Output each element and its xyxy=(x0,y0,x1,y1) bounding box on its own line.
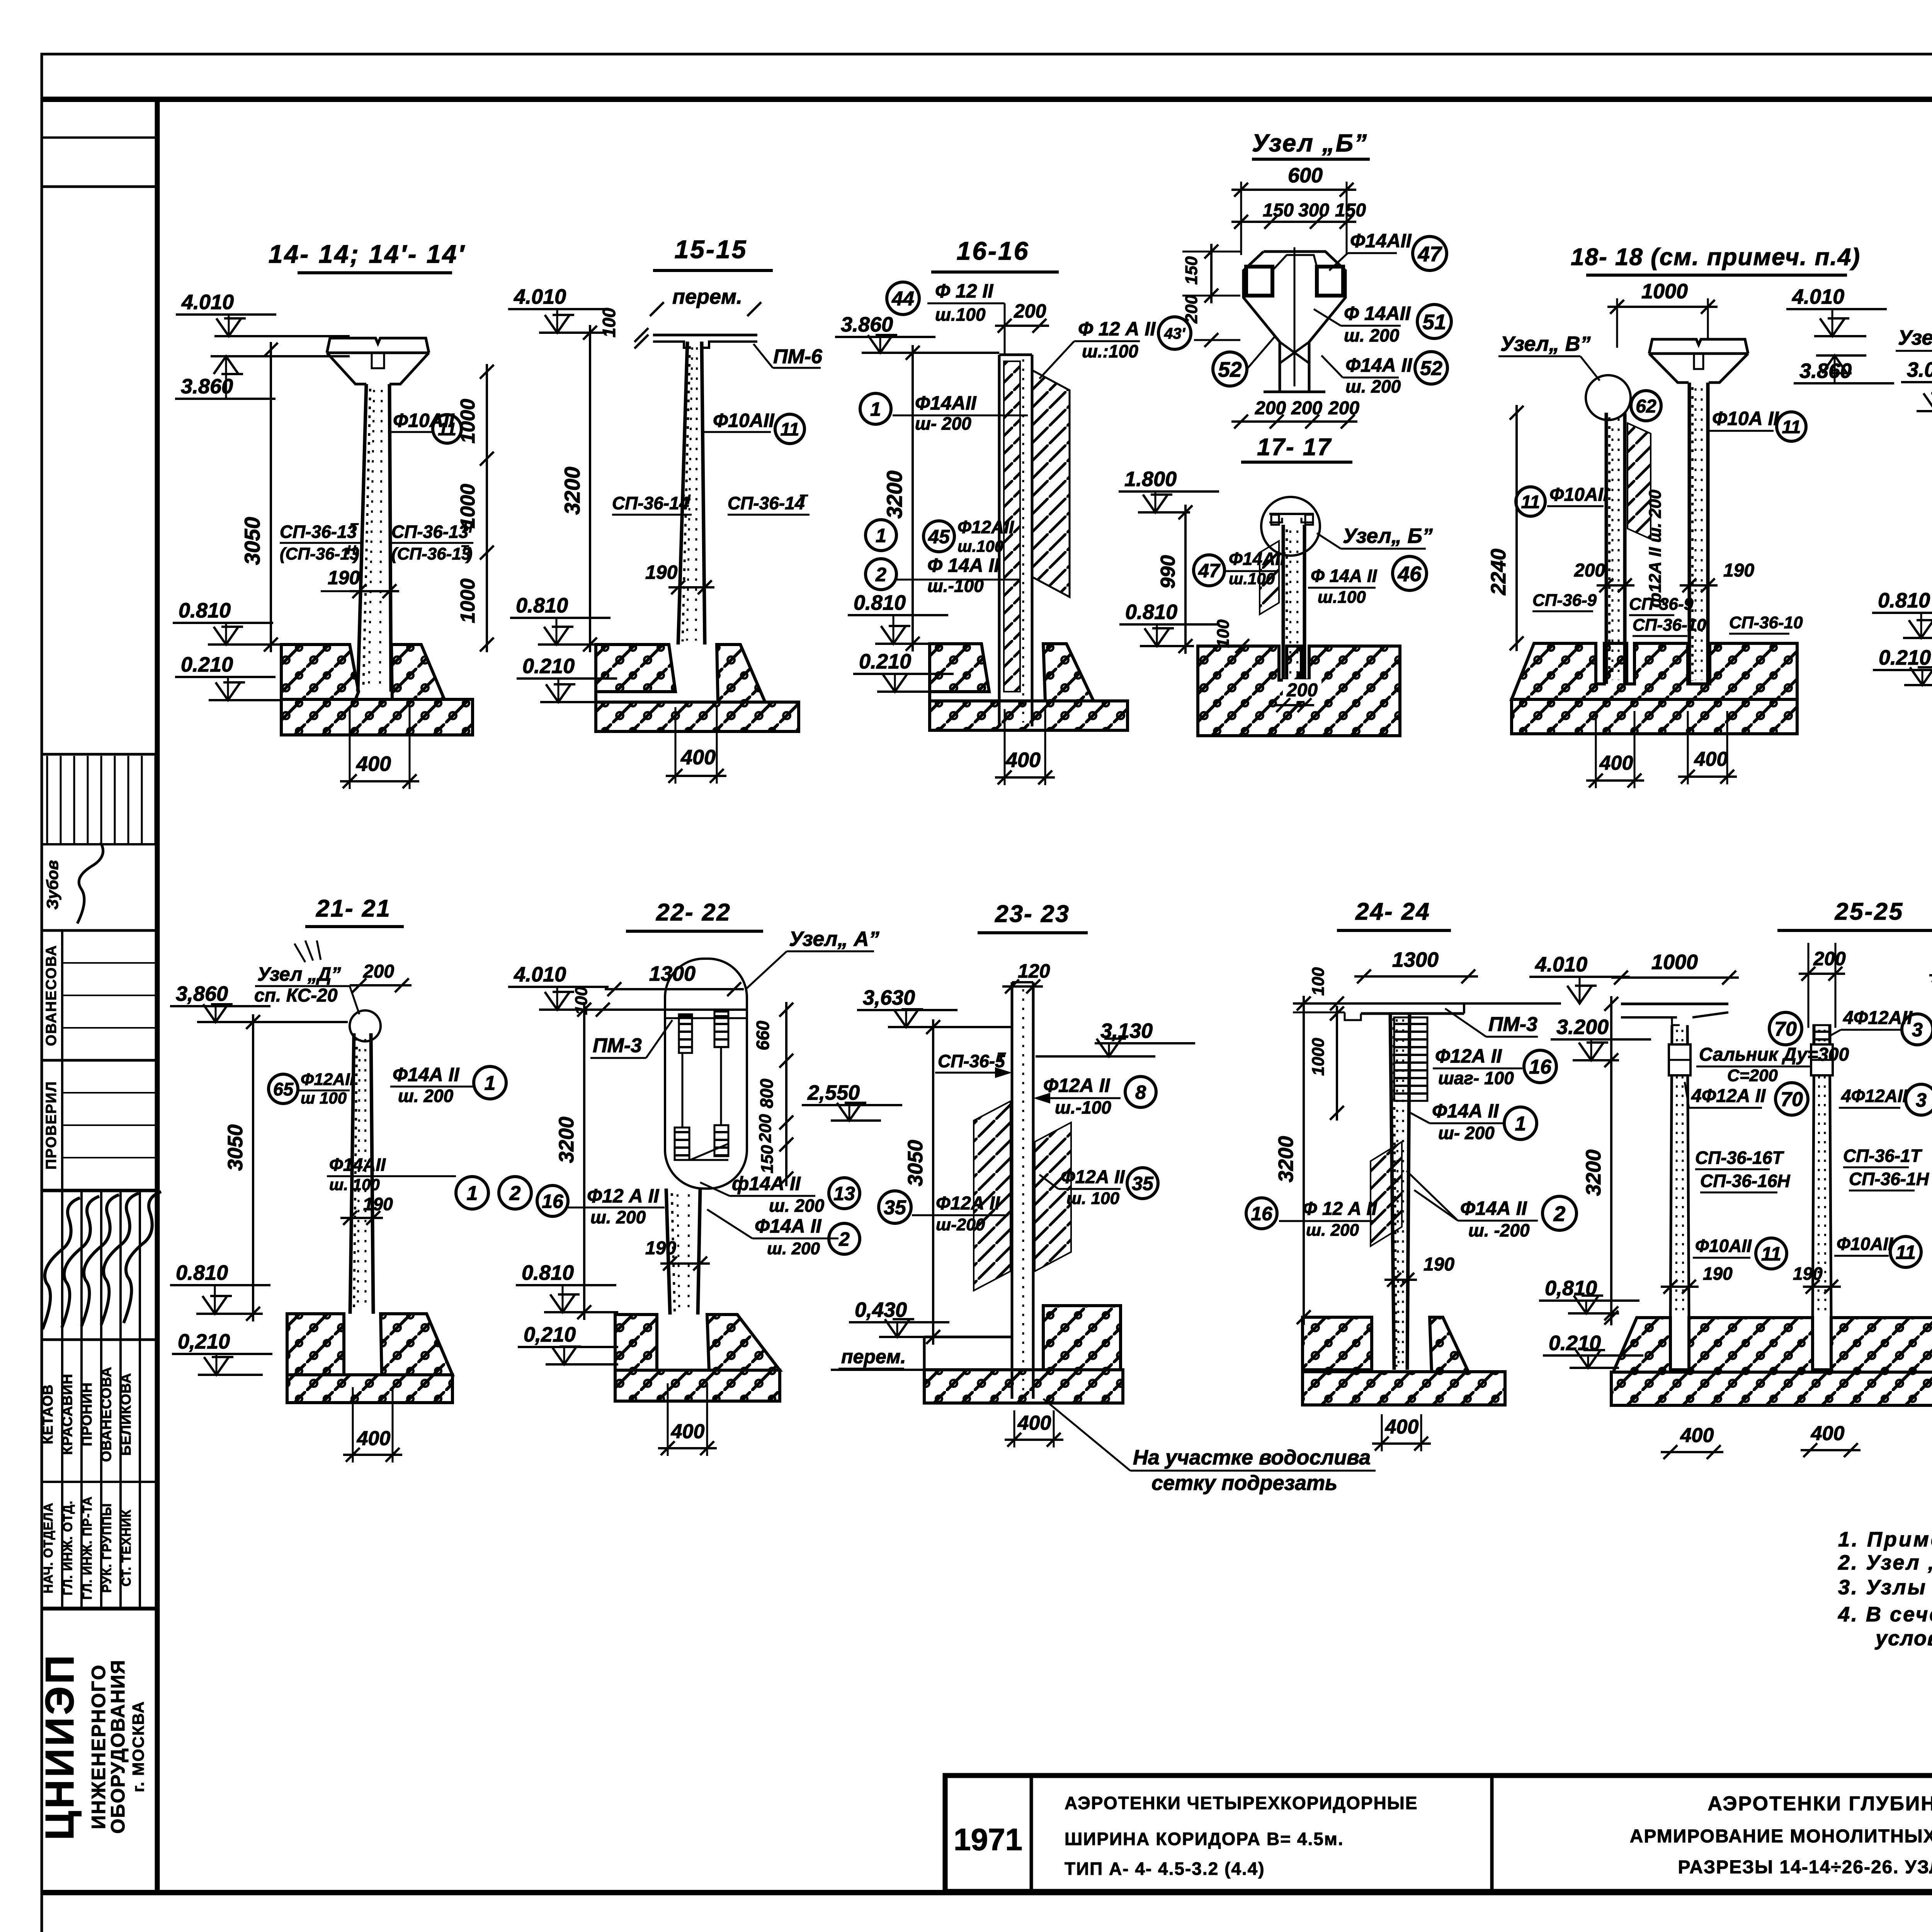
svg-text:11: 11 xyxy=(1782,417,1801,437)
mesh hatch left (23-23) xyxy=(974,1101,1010,1291)
svg-text:ш. 200: ш. 200 xyxy=(1345,376,1401,396)
svg-text:47: 47 xyxy=(1417,242,1442,266)
svg-text:СП-36-16Н: СП-36-16Н xyxy=(1700,1171,1790,1191)
dimension 200 (21-21) xyxy=(350,961,412,992)
node Б label (17-17) xyxy=(1317,524,1433,549)
rebar label Ф14АII (node Б 47) xyxy=(1329,230,1412,270)
section 15-15 title xyxy=(653,235,773,270)
svg-text:Ф14АII: Ф14АII xyxy=(1229,549,1286,569)
level mark 3,860 (21-21) xyxy=(170,982,348,1022)
section 25-25 title xyxy=(1777,898,1932,930)
note на участке водослива (23-23) xyxy=(1043,1399,1376,1495)
foundation 14-14 right block xyxy=(391,645,444,699)
dimension 400 (14-14) xyxy=(340,707,419,789)
foundation 16-16 base xyxy=(930,692,1128,730)
svg-text:Ф14А II: Ф14А II xyxy=(1345,354,1413,376)
level mark 3.860 (18-18) xyxy=(1794,355,1894,383)
node В label (19-19) xyxy=(1896,326,1932,383)
dimension 3200 (16-16) xyxy=(882,345,920,651)
svg-text:150: 150 xyxy=(758,1145,777,1173)
panel labels СП-36-14 (15-15) xyxy=(612,492,810,515)
level mark 2,550 (23-23) xyxy=(802,1081,902,1121)
mesh hatch right (23-23) xyxy=(1035,1122,1071,1271)
svg-text:Ф12АII: Ф12АII xyxy=(957,517,1014,537)
svg-text:400: 400 xyxy=(1005,748,1041,772)
svg-text:2,550: 2,550 xyxy=(807,1081,860,1104)
rebar label Ф14АII right (22-22) xyxy=(700,1173,825,1216)
svg-text:ЦНИИЭП: ЦНИИЭП xyxy=(37,1653,82,1840)
rebar Ф10АII c1 (25-25) xyxy=(1693,1236,1752,1258)
svg-text:ш. -200: ш. -200 xyxy=(1468,1220,1530,1240)
svg-text:2: 2 xyxy=(838,1228,850,1250)
svg-text:0.810: 0.810 xyxy=(522,1261,574,1284)
note line 5 xyxy=(1874,1627,1932,1650)
rebar 4Ф12АII c1 row2 (25-25) xyxy=(1685,1082,1766,1108)
svg-text:перем.: перем. xyxy=(841,1346,906,1367)
foundation 18-18 upper xyxy=(1512,643,1797,699)
svg-text:3200: 3200 xyxy=(560,467,584,515)
svg-text:ПМ-3: ПМ-3 xyxy=(1488,1013,1537,1036)
panel labels СП-36-1 c2 (25-25) xyxy=(1843,1146,1929,1190)
svg-text:25-25: 25-25 xyxy=(1835,898,1904,925)
dimension 190 (15-15) xyxy=(645,561,714,594)
svg-text:ПРОНИН: ПРОНИН xyxy=(79,1382,95,1446)
svg-text:ОБОРУДОВАНИЯ: ОБОРУДОВАНИЯ xyxy=(107,1659,129,1833)
svg-text:АЭРОТЕНКИ ГЛУБИНОЙ 3.2 м.: АЭРОТЕНКИ ГЛУБИНОЙ 3.2 м. xyxy=(1708,1792,1932,1815)
svg-text:Ф 12 II: Ф 12 II xyxy=(935,280,993,302)
callout 35 (23-23) xyxy=(1127,1168,1158,1199)
mesh hatch right (16-16) xyxy=(1032,370,1070,597)
foundation 22-22 left block xyxy=(615,1315,657,1370)
foundation 24-24 left block xyxy=(1303,1317,1372,1370)
svg-text:Узел„ В”: Узел„ В” xyxy=(1500,332,1591,355)
svg-text:2: 2 xyxy=(509,1182,521,1205)
svg-text:990: 990 xyxy=(1157,555,1179,589)
svg-text:200: 200 xyxy=(1574,560,1605,581)
column 14-14 xyxy=(358,384,391,692)
svg-text:Ф12АII: Ф12АII xyxy=(301,1070,355,1089)
svg-text:1. Примечания см. лист КС: 1. Примечания см. лист КС- 20. xyxy=(1838,1528,1932,1551)
dimension 100 (22-22) xyxy=(572,986,610,1017)
dimension 100 (17-17) xyxy=(1213,619,1271,653)
svg-text:СП-36-9: СП-36-9 xyxy=(1532,591,1597,610)
svg-text:400: 400 xyxy=(1694,748,1728,770)
stamp signatures xyxy=(43,1192,161,1329)
cap (mushroom head) 14-14 xyxy=(327,338,429,384)
rebar label Ф12АII ш.200 (24-24 16) xyxy=(1246,1198,1378,1240)
svg-text:Ф 14АII: Ф 14АII xyxy=(1344,303,1411,324)
svg-text:ш.100: ш.100 xyxy=(957,537,1003,555)
level mark 0,810 (24-24) xyxy=(1539,1277,1639,1313)
title block year 1971 xyxy=(954,1822,1022,1857)
svg-text:0.210: 0.210 xyxy=(859,650,911,673)
dims 400 (25-25) xyxy=(1661,1422,1932,1459)
stamp label ПРОВЕРИЛ xyxy=(43,1081,60,1170)
svg-text:ш. 100: ш. 100 xyxy=(1066,1189,1120,1208)
callout 3 (25-25) xyxy=(1902,1014,1932,1045)
label ПМ-3 (22-22) xyxy=(590,1020,672,1058)
rebar label Ф10АII left (18-18) xyxy=(1547,485,1609,506)
svg-text:На участке водослива: На участке водослива xyxy=(1133,1446,1371,1469)
svg-text:1: 1 xyxy=(1515,1113,1526,1135)
svg-text:сетку подрезать: сетку подрезать xyxy=(1151,1471,1337,1495)
dimension 400 (18-18 right) xyxy=(1678,711,1737,784)
dimension 600 (node Б) xyxy=(1231,164,1356,255)
svg-text:1000: 1000 xyxy=(1651,951,1698,974)
svg-text:г. МОСКВА: г. МОСКВА xyxy=(129,1701,147,1793)
foundation 15-15 base xyxy=(596,692,799,731)
dimension 200 (16-16) xyxy=(995,300,1049,333)
callout 44 (16-16) xyxy=(887,282,919,315)
svg-text:13: 13 xyxy=(833,1183,855,1204)
level mark 3.860 (14-14) xyxy=(175,356,350,399)
callout 11 (25-25) xyxy=(1756,1238,1787,1269)
level mark 4.010 (18-18) xyxy=(1786,285,1887,336)
svg-text:РУК. ГРУППЫ: РУК. ГРУППЫ xyxy=(100,1503,114,1593)
node Б title xyxy=(1252,129,1370,159)
callout 11 (14-14) xyxy=(433,415,461,443)
callout 43' (16-16) xyxy=(1158,317,1191,349)
dimension 2240 (18-18) xyxy=(1487,405,1524,651)
lintel slab (15-15) xyxy=(653,335,757,348)
dimension 3050 (23-23) xyxy=(904,1019,940,1345)
note line 3 xyxy=(1838,1576,1932,1599)
dimension 190 (18-18) xyxy=(1680,560,1754,592)
svg-text:Ф10АII: Ф10АII xyxy=(1695,1236,1752,1256)
svg-text:Т: Т xyxy=(997,1050,1006,1065)
dimensions 150 300 150 (node Б) xyxy=(1231,200,1366,229)
svg-text:11: 11 xyxy=(1761,1243,1781,1265)
dimension 200 c2 (25-25) xyxy=(1799,943,1846,1028)
svg-text:1: 1 xyxy=(870,398,881,420)
svg-text:44: 44 xyxy=(891,288,914,310)
panel labels СП-36-13 (14-14) xyxy=(280,521,473,563)
svg-text:3200: 3200 xyxy=(1274,1136,1298,1182)
svg-text:0.810: 0.810 xyxy=(516,594,568,617)
label ПМ-3 (24-24) xyxy=(1445,1009,1538,1037)
rebar label Ф14АII ш.200 (node Б 52) xyxy=(1321,354,1413,396)
svg-text:СП-36-14: СП-36-14 xyxy=(728,493,804,513)
level mark 0.210 (24-24) xyxy=(1543,1332,1643,1368)
left dim line (25-25) xyxy=(1604,996,1618,1325)
dimension 190 (24-24) xyxy=(1384,1254,1454,1287)
dimension 1000 (18-18) xyxy=(1607,280,1718,348)
svg-text:Ф10А II: Ф10А II xyxy=(1712,408,1779,429)
dimension 100 (15-15) xyxy=(599,308,648,349)
svg-text:(СП-36-13: (СП-36-13 xyxy=(391,544,471,563)
svg-text:Ф12А II: Ф12А II xyxy=(936,1193,1000,1214)
svg-text:ш. 200: ш. 200 xyxy=(769,1196,825,1216)
svg-text:СП-36-1Т: СП-36-1Т xyxy=(1843,1146,1923,1166)
svg-text:400: 400 xyxy=(356,752,391,776)
svg-text:150: 150 xyxy=(1263,200,1294,221)
node В circle (18-18) xyxy=(1586,375,1631,420)
label ПМ-6 (15-15) xyxy=(753,344,823,368)
svg-text:4.010: 4.010 xyxy=(1792,285,1844,308)
svg-text:сп. КС-20: сп. КС-20 xyxy=(254,985,338,1006)
svg-text:16: 16 xyxy=(542,1190,564,1212)
svg-text:1300: 1300 xyxy=(1392,948,1439,971)
svg-text:3,860: 3,860 xyxy=(176,982,228,1005)
svg-text:4.010: 4.010 xyxy=(1535,953,1587,976)
rebar label Ф14АII ш.100 (17-17 47) xyxy=(1226,549,1286,588)
svg-text:62: 62 xyxy=(1636,396,1656,417)
svg-text:СП-36-1Н: СП-36-1Н xyxy=(1849,1169,1929,1189)
svg-text:3. Узлы „Г”,„Д”разработаныны: 3. Узлы „Г”,„Д”разработаныны листе КС-20 xyxy=(1838,1576,1932,1599)
svg-text:35: 35 xyxy=(1132,1173,1154,1194)
callout 11 (18-18) xyxy=(1777,412,1806,441)
callout 1 (21-21) xyxy=(456,1177,488,1209)
level mark 3.200 (24-24) xyxy=(1551,1015,1651,1060)
svg-text:100: 100 xyxy=(1309,967,1328,996)
callout 11 (25-25) xyxy=(1890,1236,1921,1267)
foundation 14-14 left block xyxy=(281,645,359,699)
callout 47 (17-17) xyxy=(1194,555,1225,586)
dimension 1000 (25-25) xyxy=(1611,951,1739,985)
column 24-24 xyxy=(1390,1014,1410,1370)
svg-text:400: 400 xyxy=(1680,1424,1714,1447)
foundation 23-23 right block xyxy=(1043,1306,1121,1370)
foundation 25-25 base xyxy=(1611,1372,1932,1405)
svg-text:шаг- 100: шаг- 100 xyxy=(1438,1068,1514,1088)
svg-text:200: 200 xyxy=(1813,948,1846,969)
svg-text:2: 2 xyxy=(1553,1202,1566,1226)
svg-text:100: 100 xyxy=(599,308,619,337)
level mark 0,210 (22-22) xyxy=(518,1323,618,1364)
callout 2 (23-23) xyxy=(829,1223,860,1254)
foundation 14-14 base xyxy=(281,699,473,735)
svg-text:3.860: 3.860 xyxy=(841,313,893,336)
rebar label Ф14АII ш.200 (node Б 51) xyxy=(1314,303,1411,345)
dimension 990 (17-17) xyxy=(1157,505,1192,654)
svg-text:14- 14; 14′- 14′: 14- 14; 14′- 14′ xyxy=(269,240,466,268)
dimension 400 (21-21) xyxy=(343,1387,402,1463)
level mark 0.810 (19-19) xyxy=(1872,589,1932,638)
dimension 190 (22-22) xyxy=(645,1238,710,1270)
svg-text:3.200: 3.200 xyxy=(1556,1015,1609,1039)
stamp column grid xyxy=(42,138,157,1609)
svg-text:ГЛ. ИНЖ. ПР-ТА: ГЛ. ИНЖ. ПР-ТА xyxy=(80,1496,94,1600)
svg-text:190: 190 xyxy=(328,567,360,588)
node Б bubble circle (17-17) xyxy=(1261,497,1320,556)
svg-text:ш. 100: ш. 100 xyxy=(329,1175,380,1194)
node Д circle (21-21) xyxy=(350,1010,381,1041)
dimension 3200 (15-15) xyxy=(560,325,597,652)
dimension 1300 (24-24) xyxy=(1354,948,1478,983)
callout 11 (15-15) xyxy=(775,414,804,444)
rebar 4Ф12АII c2 top (25-25) xyxy=(1830,1008,1913,1036)
svg-text:ш.:100: ш.:100 xyxy=(1082,341,1138,361)
callout 8 (23-23) xyxy=(1125,1077,1156,1107)
rebar label Ф14АII ш.-100 (16-16) xyxy=(866,554,1020,596)
svg-text:3.860: 3.860 xyxy=(1799,359,1852,383)
dimension 3050 (14-14) xyxy=(240,342,278,652)
svg-text:3050: 3050 xyxy=(224,1124,247,1171)
svg-text:15-15: 15-15 xyxy=(675,235,748,264)
svg-text:52: 52 xyxy=(1420,357,1442,380)
foundation 21-21 base xyxy=(287,1375,452,1403)
svg-text:СП-36-14: СП-36-14 xyxy=(612,493,689,513)
level mark 3,130 (23-23) xyxy=(1036,1019,1195,1056)
wall 16-16 xyxy=(999,355,1032,726)
foundation 24-24 base xyxy=(1303,1370,1505,1405)
svg-text:1000: 1000 xyxy=(1309,1038,1328,1076)
column 18-18 left xyxy=(1606,413,1625,684)
svg-text:1: 1 xyxy=(467,1182,478,1205)
cap inside bubble (17-17) xyxy=(1269,514,1314,525)
callout 1 (21-21) xyxy=(474,1066,506,1099)
svg-text:2: 2 xyxy=(875,564,886,585)
svg-text:1.800: 1.800 xyxy=(1124,468,1177,491)
section 14-14 title xyxy=(269,240,466,273)
callout 45 (16-16) xyxy=(923,521,954,552)
svg-text:Ф12А II: Ф12А II xyxy=(1061,1167,1125,1187)
svg-text:ф12А II ш. 200: ф12А II ш. 200 xyxy=(1646,490,1665,608)
svg-text:условно не показаны.: условно не показаны. xyxy=(1874,1627,1932,1650)
svg-text:ш.100: ш.100 xyxy=(935,304,986,325)
dims 190 (25-25) xyxy=(1661,1264,1932,1296)
foundation 25-25 upper xyxy=(1613,1318,1932,1372)
svg-text:КРАСАВИН: КРАСАВИН xyxy=(60,1374,75,1455)
foundation 22-22 right block xyxy=(707,1315,780,1370)
svg-text:400: 400 xyxy=(680,746,716,769)
svg-text:Ф10АII: Ф10АII xyxy=(1837,1234,1893,1254)
detail capsule (22-22) xyxy=(665,959,747,1189)
svg-text:ГЛ. ИНЖ. ОТД.: ГЛ. ИНЖ. ОТД. xyxy=(61,1500,75,1595)
foundation 23-23 base xyxy=(924,1370,1123,1403)
level mark 3,630 (23-23) xyxy=(857,986,1012,1027)
dimension 400 (15-15) xyxy=(666,707,726,784)
callout 16 (24-24) xyxy=(1246,1198,1277,1229)
level mark 3.05 (19-19) xyxy=(1901,358,1932,411)
svg-text:0.810: 0.810 xyxy=(1125,600,1177,624)
svg-text:СП-36-9: СП-36-9 xyxy=(1629,595,1694,614)
callout 52 (node Б) xyxy=(1213,352,1247,386)
svg-text:С=200: С=200 xyxy=(1727,1066,1778,1085)
section 21-21 title xyxy=(305,895,404,927)
callout 46 (17-17) xyxy=(1393,556,1427,590)
node Б left dims 150/200 xyxy=(1182,244,1240,347)
lintel label перем (15-15) xyxy=(650,285,761,316)
mesh hatch left (24-24) xyxy=(1371,1142,1402,1246)
dimension 200 (18-18) xyxy=(1574,560,1634,592)
note line 4 xyxy=(1838,1603,1932,1626)
svg-text:ш. 200: ш. 200 xyxy=(1306,1221,1359,1240)
svg-text:Ф10АII: Ф10АII xyxy=(1549,485,1609,505)
wall 23-23 xyxy=(1012,982,1033,1399)
svg-text:Ф14А II: Ф14А II xyxy=(1460,1197,1527,1219)
svg-text:СП-36-13: СП-36-13 xyxy=(391,522,469,542)
svg-text:Ф14А II: Ф14А II xyxy=(755,1215,822,1237)
level mark 0.810 (14-14) xyxy=(173,599,282,645)
svg-text:45: 45 xyxy=(928,526,950,548)
svg-text:ф14А II: ф14А II xyxy=(732,1173,801,1194)
svg-text:47: 47 xyxy=(1198,560,1221,582)
title block object xyxy=(1065,1793,1418,1879)
svg-text:ш. 200: ш. 200 xyxy=(398,1086,454,1106)
callout 16 (21-21) xyxy=(537,1185,568,1216)
svg-text:0.210: 0.210 xyxy=(1879,646,1931,669)
note line 2 xyxy=(1838,1551,1932,1574)
callout 65 (21-21) xyxy=(269,1074,298,1104)
svg-text:70: 70 xyxy=(1774,1018,1797,1041)
svg-text:Ф 12 А II: Ф 12 А II xyxy=(1303,1199,1378,1219)
rebar label Ф12АII ш.-100 (23-23) xyxy=(1033,1075,1121,1117)
svg-text:400: 400 xyxy=(1599,752,1633,774)
svg-text:ОВАНЕСОВА: ОВАНЕСОВА xyxy=(99,1367,114,1462)
svg-text:3050: 3050 xyxy=(240,517,264,565)
level mark 4.010 (14-14) xyxy=(176,291,350,336)
svg-text:70: 70 xyxy=(1781,1088,1803,1111)
svg-text:Узел „Д”: Узел „Д” xyxy=(257,963,341,985)
svg-text:0.810: 0.810 xyxy=(854,591,906,614)
foundation 22-22 base xyxy=(615,1370,780,1401)
svg-text:3200: 3200 xyxy=(882,471,906,519)
svg-text:АРМИРОВАНИЕ МОНОЛИТНЫХ УЧАСТКО: АРМИРОВАНИЕ МОНОЛИТНЫХ УЧАСТКОВ СТЕН. xyxy=(1630,1826,1932,1847)
dimension 400 (23-23) xyxy=(1005,1410,1063,1447)
dimension 2240 (19-19) xyxy=(1929,403,1932,651)
svg-text:16: 16 xyxy=(1529,1056,1552,1078)
svg-text:НАЧ. ОТДЕЛА: НАЧ. ОТДЕЛА xyxy=(41,1502,55,1593)
svg-text:Н: Н xyxy=(681,492,691,507)
svg-text:ПРОВЕРИЛ: ПРОВЕРИЛ xyxy=(43,1081,60,1170)
svg-text:11: 11 xyxy=(1521,492,1540,512)
level mark 0.210 (15-15) xyxy=(517,655,617,702)
svg-text:46: 46 xyxy=(1397,562,1422,586)
svg-text:Узел „Б”: Узел „Б” xyxy=(1252,129,1368,157)
svg-text:660: 660 xyxy=(753,1020,773,1050)
svg-text:11: 11 xyxy=(438,419,456,439)
svg-text:190: 190 xyxy=(645,1238,676,1259)
svg-text:400: 400 xyxy=(671,1420,705,1443)
rebar label Ф12АII шаг-100 (24-24) xyxy=(1433,1045,1522,1088)
column 17-17 xyxy=(1283,525,1304,680)
svg-text:Ф 12 А II: Ф 12 А II xyxy=(1078,318,1156,340)
svg-text:ш. 200: ш. 200 xyxy=(590,1207,646,1227)
node Б cap drawing xyxy=(1243,247,1345,392)
dimension 400 (24-24) xyxy=(1372,1414,1431,1451)
svg-text:Сальник Ду=300: Сальник Ду=300 xyxy=(1699,1044,1849,1065)
svg-text:43': 43' xyxy=(1164,325,1185,342)
svg-text:Ф12А II: Ф12А II xyxy=(1435,1045,1502,1067)
panel labels СП-36-9/10 (18-18) xyxy=(1532,591,1803,636)
callout 70 (25-25) xyxy=(1769,1012,1802,1045)
svg-text:Узел„ В”: Узел„ В” xyxy=(1898,326,1932,349)
section 16-16 title xyxy=(931,236,1059,272)
node А label (22-22) xyxy=(746,927,879,989)
svg-text:190: 190 xyxy=(1703,1264,1733,1284)
callout 13 (23-23) xyxy=(829,1178,860,1209)
section 24-24 title xyxy=(1337,898,1451,930)
capsule interior (22-22) xyxy=(634,1010,747,1160)
stamp handwriting Зубов xyxy=(43,842,103,923)
mesh hatch and label ф12АII ш.200 (18-18) xyxy=(1628,423,1665,608)
callout 70 (25-25) xyxy=(1776,1083,1808,1115)
svg-text:ш- 200: ш- 200 xyxy=(1438,1123,1495,1143)
svg-text:400: 400 xyxy=(1811,1422,1845,1445)
section 23-23 title xyxy=(978,901,1088,933)
svg-text:ПМ-3: ПМ-3 xyxy=(593,1034,642,1057)
svg-text:11: 11 xyxy=(1896,1242,1916,1263)
svg-text:200: 200 xyxy=(363,961,394,982)
rebar label Ф10АII (15-15) xyxy=(703,410,775,432)
cap (mushroom head) 18-18 right xyxy=(1649,339,1748,383)
callout 11 (18-18) xyxy=(1516,487,1545,516)
rebar label Ф14АII ш.-200 (24-24 2) xyxy=(1406,1171,1538,1240)
dense hatch (24-24) xyxy=(1394,1017,1427,1101)
svg-text:35: 35 xyxy=(884,1197,906,1219)
svg-text:Т: Т xyxy=(799,492,808,507)
